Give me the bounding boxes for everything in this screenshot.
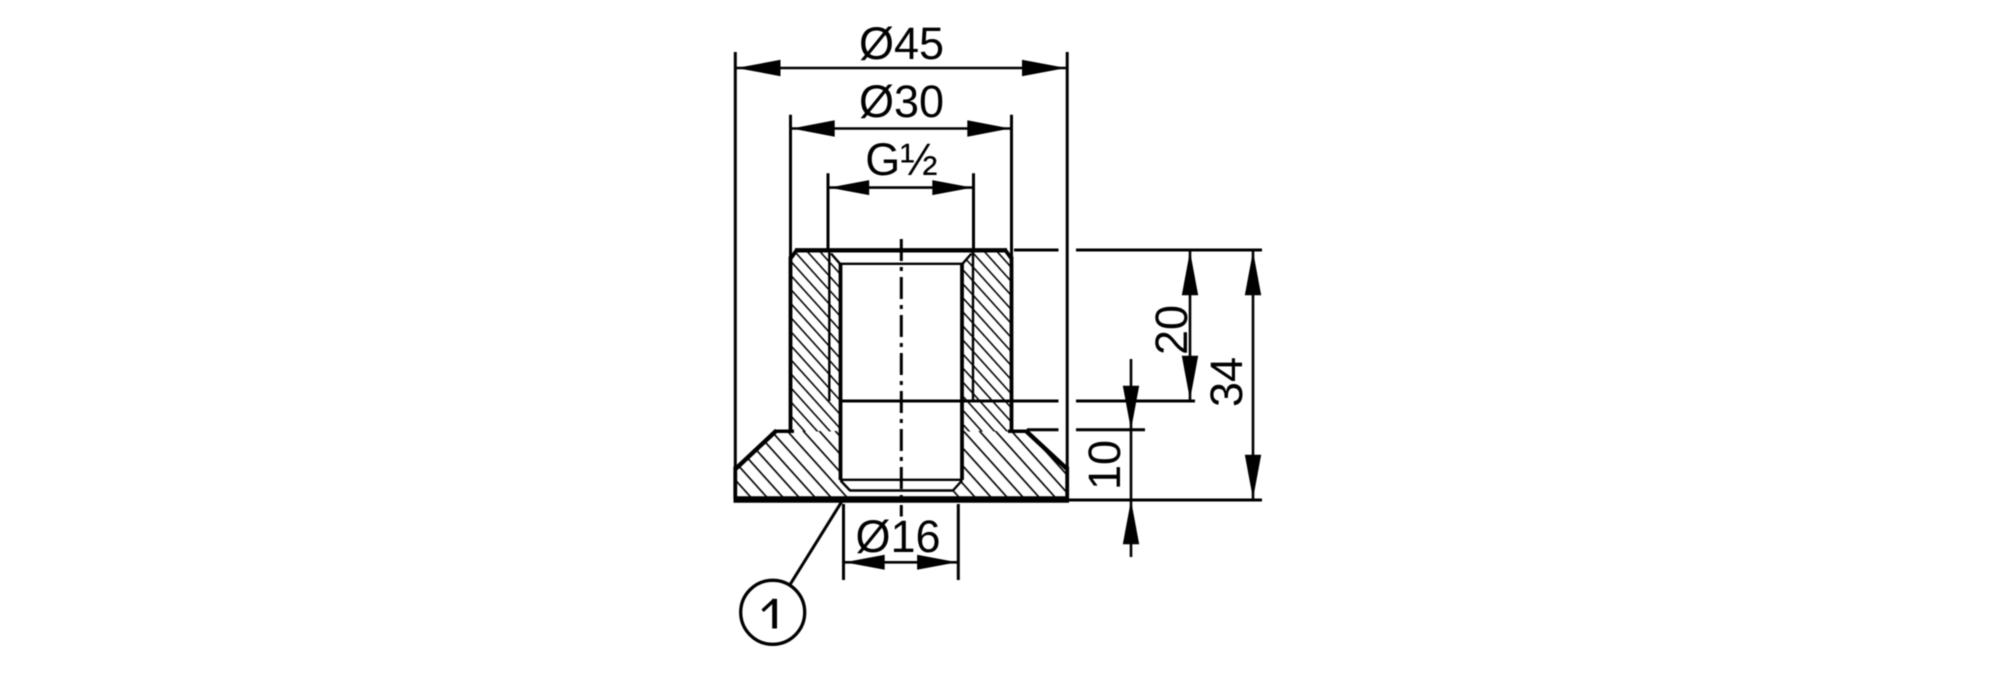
bore bottom taper right [953, 481, 962, 491]
flange cone right [1026, 431, 1067, 469]
bore top chamfer slant left [831, 254, 840, 264]
dim 34 line [1252, 250, 1255, 500]
flange edge right [1065, 467, 1069, 500]
bottom face [734, 496, 1070, 502]
flange cone left [736, 431, 777, 469]
dim Ø45 extension right [1066, 52, 1069, 468]
svg-text:Ø30: Ø30 [859, 76, 944, 127]
dim Ø45 line [735, 67, 1067, 70]
bore neck edge [850, 489, 954, 491]
outer wall left [789, 257, 793, 433]
outer wall right [1010, 257, 1014, 433]
step right (part edge) [1008, 429, 1027, 433]
top right corner chamfer [1005, 249, 1012, 258]
svg-text:10: 10 [1079, 440, 1130, 490]
hatched section right wall [962, 251, 1012, 432]
body top face [795, 248, 1007, 252]
dim Ø16 arrow left [845, 555, 885, 570]
bore top chamfer slant right [963, 254, 972, 264]
hatched section right flange [953, 431, 1066, 497]
dim 34 arrow bottom [1245, 455, 1261, 499]
svg-text:34: 34 [1201, 357, 1252, 407]
step left [775, 429, 794, 433]
svg-text:Ø16: Ø16 [855, 511, 940, 562]
thread major line right [972, 253, 974, 402]
dim 20 line [1189, 250, 1192, 401]
dim Ø16 extension right [957, 504, 960, 580]
dim Ø30 extension left [789, 115, 792, 258]
dim Ø30 line [791, 127, 1012, 130]
balloon circle 1 [741, 580, 805, 644]
dim Ø30 extension right [1010, 115, 1013, 258]
hatched section left wall [791, 251, 841, 432]
dim G1/2 extension right [972, 173, 975, 250]
dim Ø45 arrow right [1022, 60, 1066, 76]
dim G1/2 arrow left [829, 180, 869, 195]
svg-text:Ø45: Ø45 [859, 18, 944, 69]
bore wall right [960, 263, 964, 480]
step reference line right [1027, 428, 1059, 431]
dim 20 arrow bottom [1182, 356, 1198, 400]
top left corner chamfer [791, 249, 798, 258]
dim Ø45 extension left [734, 52, 737, 468]
bore bottom taper left [841, 481, 851, 491]
svg-text:G½: G½ [865, 134, 938, 185]
bore wall left [839, 263, 843, 480]
dim 10 shaft [1130, 359, 1133, 557]
hatched section left flange [737, 431, 850, 497]
dim 10 arrow upper [1123, 386, 1139, 430]
dim G1/2 arrow right [932, 180, 972, 195]
flange edge left [733, 467, 737, 500]
bore top chamfer edge [839, 263, 964, 265]
thread major line left [828, 253, 830, 402]
dim Ø16 extension left [842, 504, 845, 580]
dim 10 arrow lower [1123, 500, 1139, 544]
dim 20 arrow top [1182, 251, 1198, 295]
dim G1/2 extension left [827, 173, 830, 250]
centerline [900, 239, 903, 517]
dim Ø16 arrow right [917, 555, 957, 570]
bore bottom edge [840, 479, 963, 481]
thread depth line [841, 400, 1059, 403]
dim G1/2 line [828, 186, 974, 189]
balloon leader line [790, 502, 842, 586]
dim 34 arrow top [1245, 251, 1261, 295]
dim Ø45 arrow left [737, 60, 781, 76]
dim Ø30 arrow left [792, 120, 835, 136]
dim Ø16 line [844, 561, 959, 564]
bottom face reference line right [1069, 499, 1262, 502]
top face reference line right [1014, 249, 1059, 252]
dim Ø30 arrow right [967, 120, 1010, 136]
balloon text 1 [772, 599, 777, 629]
svg-text:20: 20 [1146, 305, 1197, 355]
